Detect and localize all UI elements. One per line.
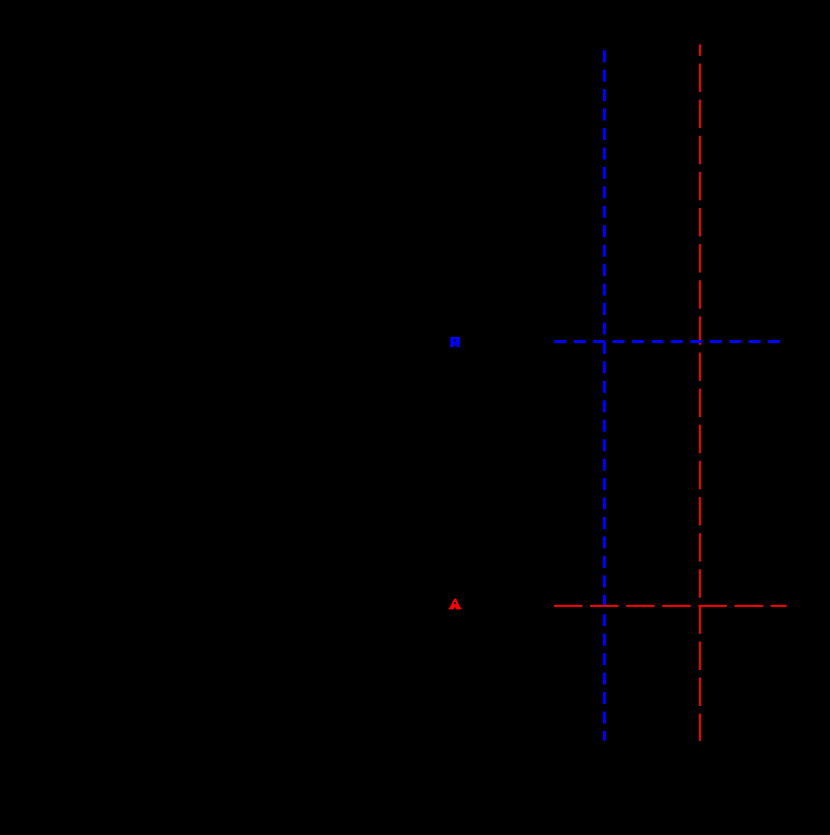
- blue dashed vertical line (median marker, group R): [603, 50, 606, 741]
- red marker: bold letter A glyph (filled triangle with counter hole and bottom notch): [449, 599, 461, 610]
- red dashed vertical line (median marker, group A): [699, 44, 701, 741]
- red dashed horizontal line (group A): [554, 605, 787, 607]
- blue marker: bold letter R glyph (appears as filled square with counter hole and bottom notch): [450, 337, 460, 347]
- blue dashed horizontal line (group R): [554, 340, 781, 343]
